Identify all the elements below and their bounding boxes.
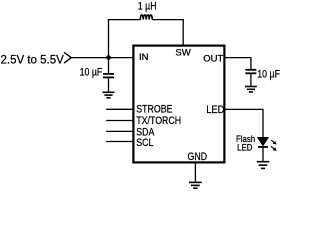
pin stub SCL xyxy=(106,141,133,143)
ground (C2) xyxy=(245,87,257,93)
LED emission arrows xyxy=(271,140,277,151)
wire OUT pin to C2 xyxy=(224,58,251,70)
svg-text:10 µF: 10 µF xyxy=(257,68,280,80)
pin stub TX/TORCH xyxy=(106,120,133,122)
svg-text:LED: LED xyxy=(206,104,224,116)
svg-text:SCL: SCL xyxy=(136,137,154,149)
capacitor C1 10 µF xyxy=(103,58,114,92)
wire GND pin to ground xyxy=(194,162,196,181)
input port arrow xyxy=(64,52,71,63)
svg-text:LED: LED xyxy=(237,142,252,153)
wire junction up to inductor xyxy=(109,20,141,58)
svg-text:SW: SW xyxy=(175,48,190,59)
ground (D1) xyxy=(257,162,270,169)
svg-text:TX/TORCH: TX/TORCH xyxy=(136,115,181,127)
ground (U1 GND) xyxy=(189,182,202,188)
pin stub STROBE xyxy=(106,108,133,110)
wire LED to ground xyxy=(262,147,264,161)
svg-text:GND: GND xyxy=(188,151,208,163)
wire inductor to SW pin xyxy=(152,20,183,46)
wire input to IN pin xyxy=(71,57,133,59)
svg-text:2.5V to 5.5V: 2.5V to 5.5V xyxy=(1,54,65,66)
LED D1 cathode bar xyxy=(258,146,268,148)
svg-text:1 µH: 1 µH xyxy=(138,0,157,12)
ground (C1) xyxy=(103,92,115,98)
svg-text:10 µF: 10 µF xyxy=(80,67,103,79)
capacitor C2 10 µF xyxy=(245,70,256,86)
pin stub SDA xyxy=(106,130,133,132)
wire LED pin to flash LED xyxy=(224,109,263,137)
LED D1 triangle xyxy=(258,137,269,145)
inductor L1 xyxy=(140,15,152,20)
svg-text:OUT: OUT xyxy=(203,54,223,65)
IC U1 body xyxy=(133,46,224,163)
node junction (input/C1/L1) xyxy=(106,55,111,60)
svg-text:IN: IN xyxy=(139,52,149,63)
